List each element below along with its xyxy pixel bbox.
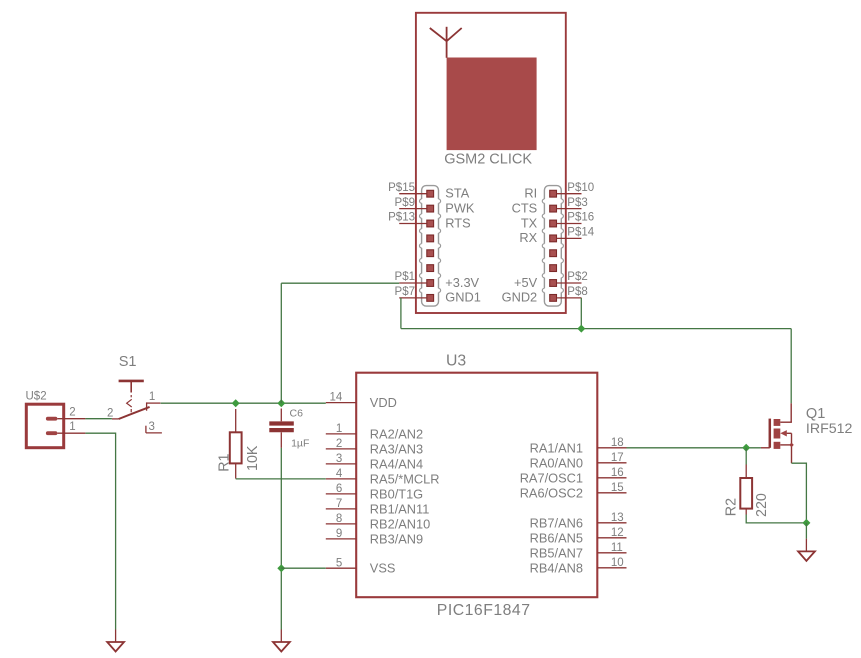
svg-text:TX: TX [521, 215, 538, 230]
switch S1 [112, 381, 162, 433]
svg-text:C6: C6 [290, 408, 304, 420]
GSM2 module body square [447, 58, 537, 151]
svg-text:7: 7 [336, 498, 342, 510]
label S1 [119, 354, 137, 370]
pin P$8 [557, 286, 588, 298]
svg-text:RB0/T1G: RB0/T1G [370, 486, 423, 501]
node VDD junction 1 [232, 399, 240, 407]
svg-text:2: 2 [69, 406, 75, 418]
svg-text:1µF: 1µF [291, 437, 309, 449]
wire U$2.2 to S1.2 [85, 418, 112, 420]
J-right pin names [502, 186, 538, 305]
wire VSS to U3.5 [281, 567, 326, 569]
svg-text:P$2: P$2 [567, 271, 587, 283]
wire R1 to RA5/MCLR [236, 478, 326, 480]
svg-text:PIC16F1847: PIC16F1847 [437, 602, 531, 619]
pin P$15 [388, 182, 426, 194]
pin P$13 [388, 212, 426, 224]
svg-text:P$1: P$1 [395, 271, 415, 283]
label 220 [754, 493, 770, 517]
svg-text:U$2: U$2 [26, 390, 47, 402]
pin 3 RA4/AN4 [326, 453, 423, 471]
pin 6 RB0/T1G [326, 483, 423, 501]
pin P$2 [557, 271, 588, 283]
svg-text:9: 9 [336, 528, 342, 540]
svg-text:GND1: GND1 [445, 290, 481, 305]
node VDD junction 2 [277, 399, 285, 407]
svg-text:VSS: VSS [370, 561, 396, 576]
antenna [430, 27, 462, 58]
svg-text:CTS: CTS [512, 200, 538, 215]
svg-text:+5V: +5V [514, 275, 538, 290]
pin 10 RB4/AN8 [530, 557, 627, 575]
svg-text:R1: R1 [217, 453, 233, 471]
Q1 source junction diamond [789, 443, 794, 448]
svg-text:IRF512: IRF512 [806, 421, 853, 437]
Q1 body arrow [780, 430, 787, 436]
ground GND right [798, 539, 815, 561]
wire R2 bottom to GND [746, 515, 806, 523]
pin 4 RA5/*MCLR [326, 468, 440, 486]
svg-text:VDD: VDD [370, 395, 397, 410]
transistor Q1 [761, 403, 792, 463]
pin 1 RA2/AN2 [326, 423, 423, 441]
J-left pin names [445, 186, 481, 305]
svg-text:U3: U3 [446, 352, 466, 369]
pin 5 VSS [326, 557, 396, 575]
svg-text:3: 3 [149, 421, 155, 433]
svg-text:10K: 10K [245, 445, 261, 471]
wire U$2.1 to GND [85, 433, 115, 629]
svg-text:12: 12 [611, 527, 624, 539]
pin 18 RA1/AN1 [530, 437, 627, 455]
ground GND mid [273, 630, 290, 652]
svg-text:10: 10 [611, 557, 624, 569]
wire GND1 P$7 down [400, 298, 402, 329]
resistor R1 [230, 409, 242, 479]
svg-text:P$14: P$14 [567, 227, 594, 239]
wire gate to R2 [745, 448, 747, 465]
pin 14 VDD [326, 392, 397, 410]
label GSM2 CLICK [444, 151, 532, 167]
node source junction [802, 519, 810, 527]
wire junction to ground [805, 523, 807, 539]
Q1 channel bars [774, 419, 781, 449]
label 10K [245, 445, 261, 471]
svg-text:17: 17 [611, 452, 624, 464]
svg-text:P$7: P$7 [395, 286, 415, 298]
svg-text:S1: S1 [119, 354, 137, 370]
label Q1 [806, 406, 825, 422]
svg-text:RB7/AN6: RB7/AN6 [530, 515, 583, 530]
pin 9 RB3/AN9 [326, 528, 423, 546]
resistor R2 [740, 465, 752, 515]
svg-text:RI: RI [524, 186, 537, 201]
IC U3 body [356, 373, 597, 598]
wire GND2 P$8 down [580, 298, 582, 329]
svg-text:8: 8 [336, 513, 342, 525]
svg-text:RA6/OSC2: RA6/OSC2 [520, 485, 583, 500]
pin P$3 [557, 197, 588, 209]
pin 12 RB6/AN5 [530, 527, 627, 545]
label PIC16F1847 [437, 602, 531, 619]
pin 2 RA3/AN3 [326, 438, 423, 456]
label C6 [290, 408, 304, 420]
wire +3.3V vertical [280, 283, 282, 403]
U$2 pin 1 [46, 421, 86, 435]
pin P$14 [557, 227, 595, 239]
svg-text:RA7/OSC1: RA7/OSC1 [520, 470, 583, 485]
node gate junction [742, 444, 750, 452]
svg-text:P$16: P$16 [567, 212, 594, 224]
svg-text:220: 220 [754, 493, 770, 517]
pin P$10 [557, 182, 594, 194]
svg-text:P$3: P$3 [567, 197, 587, 209]
svg-text:P$9: P$9 [395, 197, 415, 209]
svg-text:6: 6 [336, 483, 342, 495]
svg-text:RA2/AN2: RA2/AN2 [370, 426, 423, 441]
connector J-right outline [544, 186, 561, 307]
svg-text:STA: STA [445, 186, 469, 201]
svg-text:+3.3V: +3.3V [445, 275, 479, 290]
svg-text:16: 16 [611, 467, 624, 479]
svg-text:RB3/AN9: RB3/AN9 [370, 531, 423, 546]
pin 8 RB2/AN10 [326, 513, 430, 531]
label R2 [724, 498, 740, 516]
svg-text:RB2/AN10: RB2/AN10 [370, 516, 430, 531]
svg-text:P$10: P$10 [567, 182, 594, 194]
connector J-right pads [550, 190, 557, 301]
label R1 [217, 453, 233, 471]
svg-text:RA3/AN3: RA3/AN3 [370, 441, 423, 456]
pin P$1 [395, 271, 427, 283]
svg-text:15: 15 [611, 482, 624, 494]
svg-text:RA0/AN0: RA0/AN0 [530, 455, 583, 470]
svg-text:1: 1 [149, 391, 155, 403]
pin P$16 [557, 212, 594, 224]
label 1uF [291, 437, 309, 449]
capacitor C6 [269, 409, 294, 448]
svg-text:RA5/*MCLR: RA5/*MCLR [370, 471, 440, 486]
svg-text:P$13: P$13 [388, 212, 415, 224]
svg-text:1: 1 [69, 421, 75, 433]
ground GND left [107, 630, 124, 652]
pin 17 RA0/AN0 [530, 452, 627, 470]
wire Q1 source to GND [792, 463, 807, 523]
pin 13 RB7/AN6 [530, 512, 627, 530]
pin P$7 [395, 286, 427, 298]
svg-text:13: 13 [611, 512, 624, 524]
svg-text:5: 5 [336, 557, 342, 569]
svg-text:P$8: P$8 [567, 286, 587, 298]
svg-text:14: 14 [330, 392, 343, 404]
node VSS junction [277, 564, 285, 572]
svg-text:RB1/AN11: RB1/AN11 [370, 501, 430, 516]
wire C6 to GND vertical [280, 448, 282, 630]
label U3 [446, 352, 466, 369]
svg-text:RB6/AN5: RB6/AN5 [530, 530, 583, 545]
svg-text:3: 3 [336, 453, 342, 465]
pin 15 RA6/OSC2 [520, 482, 627, 500]
node GND rail junction [577, 325, 585, 333]
svg-text:RB5/AN7: RB5/AN7 [530, 545, 583, 560]
pin 16 RA7/OSC1 [520, 467, 627, 485]
svg-text:Q1: Q1 [806, 406, 825, 422]
label U$2 [26, 390, 47, 402]
S1 pin numbers [107, 391, 155, 433]
wire +3.3V horizontal to P$1 [281, 282, 399, 284]
svg-text:RA1/AN1: RA1/AN1 [530, 440, 583, 455]
svg-text:RA4/AN4: RA4/AN4 [370, 456, 423, 471]
svg-text:RX: RX [519, 230, 537, 245]
wire GND rail horizontal [401, 328, 791, 330]
pin 7 RB1/AN11 [326, 498, 430, 516]
U$2 pin 2 [46, 406, 86, 420]
connector J-left outline [422, 186, 439, 307]
svg-text:2: 2 [107, 408, 113, 420]
wire GND rail to Q1 drain [790, 329, 792, 404]
svg-text:P$15: P$15 [388, 182, 415, 194]
svg-text:RB4/AN8: RB4/AN8 [530, 560, 583, 575]
svg-text:PWK: PWK [445, 200, 475, 215]
svg-text:2: 2 [336, 438, 342, 450]
wire U3.18 to Q1 gate [627, 447, 761, 449]
svg-text:11: 11 [611, 542, 623, 554]
pin P$9 [395, 197, 427, 209]
svg-text:GND2: GND2 [502, 290, 538, 305]
module GSM2 CLICK outline [416, 13, 566, 313]
svg-text:4: 4 [336, 468, 343, 480]
label IRF512 [806, 421, 853, 437]
pin 11 RB5/AN7 [530, 542, 627, 560]
svg-text:R2: R2 [724, 498, 740, 516]
svg-text:1: 1 [336, 423, 342, 435]
svg-text:RTS: RTS [445, 215, 470, 230]
wire S1.1 to U3.VDD [161, 402, 326, 404]
connector J-left pads [427, 190, 434, 301]
svg-text:18: 18 [611, 437, 624, 449]
svg-text:GSM2 CLICK: GSM2 CLICK [444, 151, 532, 167]
connector U$2 body [26, 404, 63, 448]
